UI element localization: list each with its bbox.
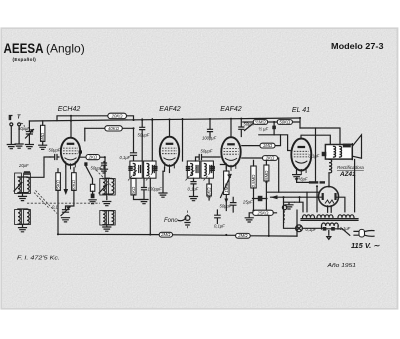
pot wiper arrow — [221, 175, 232, 198]
capacitor 50uuF on AVC line — [140, 119, 145, 161]
terminal T post — [18, 123, 21, 126]
svg-text:25KΩ: 25KΩ — [257, 210, 270, 215]
svg-text:2KΩ: 2KΩ — [265, 155, 275, 160]
L2 coil box right — [24, 210, 31, 225]
25K right to bus — [269, 213, 277, 236]
mid caps wire — [326, 228, 342, 230]
drop to IFT2 — [182, 119, 184, 161]
ECH42 cathode taps — [58, 168, 74, 173]
ground L2 — [19, 228, 27, 232]
trimmer C1 arrow — [26, 130, 34, 139]
EAF42 first cathode wires — [163, 168, 170, 173]
svg-text:100μμF: 100μμF — [148, 187, 163, 192]
L4 coil box left — [100, 211, 107, 226]
svg-text:50μμF: 50μμF — [220, 204, 232, 209]
ground EAF42 cathode — [159, 193, 167, 197]
wire 25K to bus — [57, 190, 59, 234]
R1 leads — [42, 121, 44, 145]
wire left of 1/2M — [243, 121, 253, 123]
L2 coil box left — [15, 210, 22, 225]
IFT1 outer cap dark left — [128, 167, 132, 171]
svg-text:1MΩ: 1MΩ — [263, 143, 273, 148]
grid wire down to coil — [27, 157, 50, 177]
mains cap right — [331, 227, 335, 231]
tone cap blob on output transformer — [322, 152, 327, 156]
resistor 1K under IFT1 — [131, 179, 136, 196]
ground L1 — [19, 196, 27, 200]
grid feed wire — [259, 135, 290, 151]
primary feed from filter node — [316, 186, 318, 212]
trimmer C1 drop — [28, 121, 30, 144]
B feed line upper — [267, 191, 319, 193]
grid cap C ECH42 — [50, 155, 59, 160]
AVC return arrow — [65, 166, 67, 190]
ground osc leak — [89, 200, 96, 204]
right anode link — [337, 197, 345, 212]
IFT2 left cap — [196, 166, 198, 173]
ground L3 — [103, 202, 111, 206]
resistor 2K second — [263, 156, 278, 161]
IFT1 left coil — [133, 164, 135, 176]
svg-text:50μμF: 50μμF — [201, 149, 213, 154]
svg-text:EAF42: EAF42 — [159, 106, 181, 113]
antenna coil L2a — [18, 209, 20, 224]
L1 top bar — [18, 177, 27, 196]
resistor 1M — [260, 143, 275, 148]
junction dots — [57, 115, 330, 237]
L1 coil box right — [24, 173, 31, 194]
svg-text:20KΩ: 20KΩ — [111, 113, 124, 118]
mains transformer core — [301, 219, 358, 221]
antenna symbol A — [9, 116, 12, 120]
IFT1 outer cap dark right — [153, 167, 157, 171]
trimmer C1 plates — [26, 132, 32, 135]
IFT2 bottom cap — [191, 178, 196, 196]
speaker cone — [352, 135, 361, 158]
primary winding right — [338, 215, 354, 218]
L1 coil box left — [15, 173, 22, 194]
lamp to caps — [302, 227, 322, 229]
svg-text:Rectificadora: Rectificadora — [337, 165, 364, 170]
AVC arrow — [245, 124, 253, 131]
resistor 1M row — [242, 135, 281, 146]
svg-text:Fono: Fono — [164, 218, 178, 224]
osc coil L4a — [103, 211, 105, 225]
osc grid blob — [84, 162, 87, 166]
wire diode left — [196, 157, 200, 161]
EAF42 first anode drop — [169, 119, 171, 136]
det cap 0,1uF — [215, 210, 220, 223]
IFT2 right cap — [210, 166, 212, 173]
coupling cap 1/2uF — [272, 126, 276, 130]
HV lead left — [295, 202, 304, 212]
resistor 2K — [86, 155, 100, 160]
osc grid leak box — [90, 184, 94, 191]
IFT2 outer cap dark right — [211, 167, 215, 171]
svg-text:0,5MΩ: 0,5MΩ — [251, 174, 256, 188]
svg-text:0,1μF: 0,1μF — [214, 224, 225, 229]
ground IFT2 cap — [190, 197, 198, 201]
25K left lead + ground — [249, 213, 253, 218]
resistor 1/2M — [253, 120, 267, 125]
ground chassis link — [285, 205, 293, 209]
Fono arrow — [179, 218, 187, 221]
choke feed vertical — [315, 128, 317, 182]
svg-text:0,1: 0,1 — [52, 205, 58, 210]
IFT2 right coil — [204, 164, 206, 176]
svg-text:50μμF: 50μμF — [49, 148, 61, 153]
svg-text:0,1μF: 0,1μF — [306, 227, 317, 232]
secondary winding — [322, 223, 339, 226]
electrolytic 8+8uF — [309, 181, 318, 183]
gang diagonal 3 — [96, 170, 112, 187]
ECH42 side grid blob — [79, 150, 82, 153]
padder arrow — [61, 207, 70, 216]
filter choke — [329, 159, 332, 173]
L3 trimmer arrow — [99, 185, 107, 194]
svg-text:(Anglo): (Anglo) — [46, 42, 85, 56]
svg-text:1MΩ: 1MΩ — [40, 132, 45, 142]
tube ECH42 U1 — [61, 138, 80, 170]
tube AZ41 rectifier U5 — [319, 187, 339, 207]
mains switch — [342, 229, 350, 236]
IFT1 right cap — [152, 166, 154, 173]
wire 20K row — [57, 116, 134, 121]
svg-text:20μF: 20μF — [18, 163, 29, 168]
plug body — [359, 229, 365, 237]
dotted link arc — [21, 123, 25, 127]
svg-text:EAF42: EAF42 — [220, 106, 242, 113]
T2 primary coil — [334, 146, 336, 157]
tube EAF42 U2 — [160, 137, 179, 171]
wire T down — [18, 126, 20, 144]
IFT1 adjust dash — [128, 167, 158, 181]
svg-text:Año 1951: Año 1951 — [326, 263, 356, 269]
primary winding left — [303, 215, 315, 218]
svg-text:0,1μF: 0,1μF — [309, 154, 320, 159]
svg-text:0,1μF: 0,1μF — [120, 155, 131, 160]
IFT1 left cap — [139, 166, 141, 173]
ground L4 — [103, 227, 111, 231]
svg-text:2MΩ: 2MΩ — [237, 233, 248, 238]
cathode ground wire — [162, 171, 164, 192]
bus right end up — [296, 210, 298, 236]
antenna coil L1b — [27, 177, 29, 193]
0,5M a leads — [253, 160, 255, 210]
pilot lamp — [296, 225, 303, 232]
L3 coil box right — [108, 179, 115, 196]
svg-text:8+8μF: 8+8μF — [296, 177, 308, 182]
pot top wire — [220, 165, 226, 172]
IFT1 box left — [130, 161, 142, 178]
capacitor at IFT1 feed — [131, 153, 137, 156]
IFT2 box right — [201, 161, 213, 178]
wire A down — [10, 126, 12, 144]
EL41 cathode stem — [296, 171, 298, 175]
ground R1 — [39, 145, 47, 149]
svg-text:40KΩ: 40KΩ — [108, 126, 120, 131]
volume pot 1M — [224, 171, 229, 195]
resistor 2K row — [242, 158, 279, 192]
diode cap plates — [199, 155, 220, 160]
resistor 0,5M vertical b — [264, 165, 269, 181]
svg-text:25μF: 25μF — [242, 200, 253, 205]
wire 40K row — [85, 128, 134, 152]
plug cord — [365, 230, 375, 236]
wire 40K left bend — [84, 128, 86, 141]
bus resistor 2M b — [236, 233, 251, 238]
L4 bars — [103, 211, 112, 227]
resistor 50K — [277, 120, 292, 125]
IFT2 adjust dash — [186, 167, 216, 181]
svg-text:2MΩ: 2MΩ — [160, 232, 171, 237]
svg-text:50KΩ: 50KΩ — [279, 119, 291, 124]
antenna coil L2b — [27, 209, 29, 224]
det cap 50uuF — [231, 197, 236, 212]
IFT2 left coil — [191, 164, 193, 176]
terminal A post — [10, 123, 13, 126]
svg-text:100μμF: 100μμF — [202, 136, 217, 141]
svg-text:2KΩ: 2KΩ — [88, 155, 98, 160]
ground EL41 cathode — [293, 175, 301, 179]
wire 20K to padder — [66, 190, 74, 209]
1K lead to ground — [134, 195, 145, 200]
L3 bars — [103, 179, 112, 200]
svg-text:EL 41: EL 41 — [292, 107, 310, 114]
EAF42 second anode drop — [230, 119, 232, 137]
IFT1 right coil — [147, 164, 149, 176]
resistor R1 vertical — [41, 125, 45, 141]
osc grid diagonal wire — [86, 166, 93, 184]
antenna series cap — [25, 172, 30, 174]
svg-text:(Español): (Español) — [13, 57, 37, 62]
svg-text:½ μF: ½ μF — [259, 127, 269, 132]
gang dash line — [27, 202, 100, 204]
bottom bus — [58, 234, 297, 236]
IFT1 bottom cap — [142, 178, 147, 199]
Fono jack — [185, 216, 190, 221]
wire between screen boxes — [268, 121, 278, 123]
plug prongs — [354, 231, 359, 235]
L1 trimmer arrow — [14, 183, 22, 192]
osc resistor 20K vertical — [72, 173, 77, 191]
mains cap left — [323, 227, 327, 231]
tube EAF42 U3 — [221, 137, 240, 171]
ground T — [15, 144, 23, 148]
svg-text:ECH42: ECH42 — [58, 106, 81, 113]
svg-text:0,1μF: 0,1μF — [188, 187, 199, 192]
L2 bars — [18, 209, 27, 227]
AVC cap drop — [239, 119, 244, 137]
L3 coil box left — [100, 179, 107, 196]
B plus screen wire — [300, 128, 340, 145]
IFT1 box right — [144, 161, 156, 178]
svg-text:50μμF: 50μμF — [138, 133, 150, 138]
bus resistor 2M a — [159, 232, 172, 237]
AVC drop right — [151, 119, 153, 161]
drop with 100uuF cap to det — [208, 119, 213, 137]
osc resistor 25K vertical — [56, 173, 61, 191]
IFT1 right bottom to bus — [149, 178, 151, 234]
electrolytic 25uF — [258, 196, 263, 201]
osc coil L4b — [112, 211, 114, 225]
tube EL41 U4 — [291, 139, 311, 176]
ground IFT1 cap — [140, 200, 148, 204]
svg-text:AZ41: AZ41 — [339, 171, 356, 178]
antenna coil L1a — [18, 177, 20, 193]
primary winding mid — [317, 215, 333, 218]
padder ground — [62, 218, 70, 222]
IFT2 box left — [187, 161, 199, 178]
resistor 20K — [108, 113, 127, 118]
lower chassis link — [284, 202, 295, 204]
osc coil L3a — [103, 179, 105, 195]
svg-text:AEESA: AEESA — [4, 41, 44, 56]
primary feed second — [306, 192, 308, 212]
resistor 2K row — [81, 157, 110, 178]
0,5M b leads — [265, 161, 267, 212]
osc coil L3b — [112, 179, 114, 195]
screen row corner from bus — [293, 118, 300, 128]
resistor 0,5M vertical a — [251, 166, 256, 188]
svg-text:Modelo 27-3: Modelo 27-3 — [331, 42, 384, 51]
resistor under IFT2 — [207, 184, 212, 196]
EL41 anode wire — [301, 135, 330, 144]
top bus — [29, 118, 300, 121]
B plus arrowed line — [271, 196, 322, 198]
svg-text:½MΩ: ½MΩ — [255, 119, 266, 124]
secondary leads — [322, 226, 339, 229]
svg-text:115 V. ∼: 115 V. ∼ — [351, 241, 380, 250]
IFT2 outer cap dark left — [186, 167, 190, 171]
speaker magnet — [343, 144, 351, 148]
resistor 40K — [105, 126, 123, 131]
choke to rectifier — [328, 173, 330, 187]
ground under 2K — [101, 169, 108, 173]
rectifier filament taps — [328, 206, 332, 213]
gang diagonal 2 — [36, 191, 58, 214]
svg-text:F. I. 472'5 Kc.: F. I. 472'5 Kc. — [17, 255, 60, 261]
speaker return vertical — [354, 160, 356, 212]
ground 25K — [245, 218, 253, 222]
output transformer T2 — [325, 145, 352, 160]
L4 coil box right — [108, 211, 115, 226]
T2 secondary coil — [340, 146, 342, 157]
svg-text:1KΩ: 1KΩ — [131, 186, 136, 195]
osc electrolytic — [91, 194, 95, 199]
padder cap plates — [63, 210, 69, 213]
ground trimmer — [25, 145, 33, 149]
capacitor under 2K — [102, 162, 107, 169]
caps center ground — [327, 231, 331, 240]
pilot branch down — [284, 197, 296, 228]
ECH42 anode drop to 20K row — [70, 116, 72, 137]
ground A — [7, 145, 15, 149]
speaker jack — [282, 205, 286, 209]
svg-text:50μμF: 50μμF — [18, 126, 30, 131]
pot bottom wire — [225, 195, 227, 211]
resistor 25K row — [253, 210, 274, 215]
heater return vertical — [299, 197, 301, 202]
speaker frame line — [351, 144, 353, 160]
gang diagonal 1 — [34, 193, 49, 208]
